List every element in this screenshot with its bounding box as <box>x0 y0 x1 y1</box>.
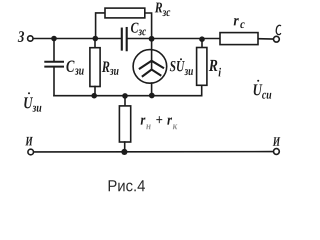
label Rзи value <box>102 62 110 72</box>
resistor R2 Rзс body <box>105 8 145 18</box>
node mid rail at Rзи <box>91 93 97 99</box>
label Uси voltage <box>254 84 263 95</box>
wire middle rail <box>54 95 202 97</box>
dot over U of Uзи <box>28 92 30 94</box>
wire R_зс left leg up <box>96 13 105 39</box>
caption Рис.4 <box>109 180 145 191</box>
label Ri value <box>209 60 218 71</box>
wire bottom rail <box>34 151 274 153</box>
terminal С circle <box>274 36 280 42</box>
wire R_зи top leg <box>94 39 96 48</box>
dot over U of SUзи <box>180 58 182 60</box>
capacitor C1 Cзи plates <box>45 62 63 67</box>
label И source terminal right <box>273 137 281 146</box>
wire R_i bottom leg <box>201 85 203 95</box>
wire C_зи bottom leg <box>53 67 55 96</box>
node mid rail at source <box>149 93 155 99</box>
resistor R5 rи+rк body <box>119 106 130 142</box>
wire top rail middle (C_зс to r_с) <box>128 38 220 40</box>
node gate rail at Rзи <box>93 36 99 42</box>
wire r_иk top leg <box>124 96 126 106</box>
node drain rail at Ri <box>199 36 205 42</box>
label С drain terminal <box>276 25 280 34</box>
label З gate terminal <box>18 31 24 42</box>
current source G1 arrow stem <box>151 50 153 69</box>
label Rзс value <box>155 3 162 13</box>
dot over U of Uси <box>257 80 259 82</box>
node bottom rail at rк <box>121 149 127 155</box>
wire r_иk bottom leg <box>124 142 126 152</box>
label SUзи source value <box>170 61 185 71</box>
capacitor C2 Cзс plates <box>122 28 127 50</box>
wire R_зи bottom leg <box>94 87 96 96</box>
label rн + rк value <box>141 118 146 125</box>
terminal И right circle <box>274 149 280 155</box>
resistor R3 Ri body <box>197 48 207 86</box>
terminal И left circle <box>28 149 34 155</box>
label Cзс value <box>131 23 139 33</box>
current source G1 lower chevron <box>143 70 161 77</box>
wire current source top leg <box>151 39 153 51</box>
resistor R1 Rзи body <box>90 48 100 87</box>
label И source terminal left <box>25 137 33 146</box>
node mid rail at rи <box>122 93 128 99</box>
resistor R4 rс body <box>220 33 258 45</box>
terminal З circle <box>28 36 33 41</box>
wire top rail right (r_с to terminal С) <box>258 38 273 40</box>
current source G1 upper chevron <box>140 61 163 69</box>
wire current source bottom leg <box>151 83 153 96</box>
wire C_зи top leg <box>53 39 55 62</box>
wire R_зс right leg down <box>145 13 152 39</box>
node drain rail at source <box>149 36 155 42</box>
label Uзи voltage <box>24 97 33 108</box>
label Cзи value <box>66 61 74 72</box>
wire top rail left (terminal З to C_зс) <box>33 38 121 40</box>
node gate rail at Cзи <box>51 36 57 42</box>
current source G1 circle <box>133 50 167 84</box>
wire R_i top leg <box>201 39 203 48</box>
label rс value <box>234 18 239 25</box>
